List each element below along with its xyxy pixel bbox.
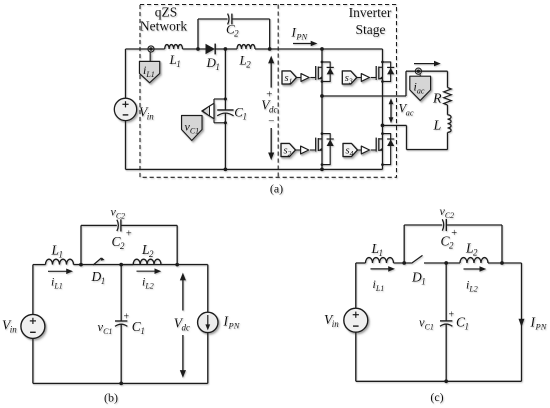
node C1-top (b) bbox=[119, 263, 123, 267]
wire C1 branch lower (b) bbox=[120, 324, 122, 383]
current arrow iac bbox=[414, 63, 436, 65]
transistor Q3 drain stub bbox=[379, 66, 383, 68]
transistor Q2 body diode bbox=[327, 138, 334, 140]
gate signal tag s2 bbox=[281, 143, 296, 156]
capacitor C2 (c) bbox=[442, 219, 443, 230]
node C2-right (b) bbox=[175, 263, 179, 267]
resistor R bbox=[444, 88, 452, 106]
wire C2 branch left (c) bbox=[403, 225, 405, 263]
wire tag-to-buffer s1 bbox=[297, 77, 302, 79]
inductor L1 (b) bbox=[46, 259, 74, 264]
svg-text:(c): (c) bbox=[430, 390, 443, 404]
transistor Q2 channel bbox=[317, 138, 319, 151]
node C1 bottom bbox=[224, 168, 228, 172]
transistor Q4 gate bar bbox=[375, 138, 377, 152]
capacitor C1 (c) bbox=[440, 320, 452, 322]
current probe iL1 bbox=[139, 52, 159, 83]
inverter stage dashed divider bbox=[277, 5, 279, 178]
wire buffer-to-gate s1 bbox=[310, 77, 315, 79]
wire top rail (b) bbox=[33, 264, 46, 266]
inductor L2 (c) bbox=[460, 258, 488, 263]
node iac probe point bbox=[415, 68, 421, 74]
diode D1 bbox=[206, 44, 216, 55]
node C1-top (c) bbox=[444, 261, 448, 265]
capacitor C1 bbox=[217, 109, 233, 111]
wire C1 branch upper (b) bbox=[120, 265, 122, 321]
node B (D1-L2 / C1 top) bbox=[224, 47, 228, 51]
gate driver buffer s2 bbox=[301, 146, 309, 154]
svg-text:−: − bbox=[268, 115, 274, 127]
svg-text:(b): (b) bbox=[104, 391, 118, 405]
node left leg midpoint bbox=[320, 94, 324, 98]
transistor Q2 source arrow bbox=[319, 148, 322, 151]
wire R-L bbox=[447, 105, 449, 115]
inductor L1 (c) bbox=[366, 258, 394, 263]
wire C2 branch left bbox=[197, 19, 199, 49]
capacitor C2 bbox=[228, 14, 229, 25]
wire C1 branch lower bbox=[224, 114, 226, 170]
node A (L1-D1) bbox=[196, 47, 200, 51]
wire load bottom bbox=[447, 132, 449, 149]
svg-text:+: + bbox=[449, 309, 455, 320]
wire right branch top (b) bbox=[207, 265, 209, 313]
wire top rail (c) bbox=[356, 262, 366, 264]
transistor Q3 source arrow bbox=[379, 76, 382, 79]
wire C2 top right (b) bbox=[121, 224, 177, 226]
svg-text:Stage: Stage bbox=[356, 22, 386, 37]
wire buffer-to-gate s4 bbox=[371, 149, 377, 151]
node C1 bottom (b) bbox=[119, 382, 123, 386]
transistor Q3 body-diode loop bbox=[383, 62, 391, 82]
wire right leg bbox=[382, 49, 384, 169]
node C2-left (b) bbox=[79, 263, 83, 267]
wire C2 top right (c) bbox=[446, 224, 502, 226]
switch D1 (b) blade bbox=[93, 258, 101, 265]
svg-text:qZS: qZS bbox=[155, 5, 178, 20]
node C1 bottom (c) bbox=[444, 379, 448, 383]
transistor Q2 drain stub bbox=[318, 138, 322, 140]
node qZS input (probe point) bbox=[148, 46, 154, 52]
transistor Q4 source stub bbox=[379, 149, 383, 151]
transistor Q1 body diode bbox=[327, 66, 334, 68]
transistor Q1 source stub bbox=[318, 78, 322, 80]
transistor Q3 channel bbox=[378, 67, 380, 80]
wire C2 branch right bbox=[269, 19, 271, 49]
voltage source Vin (b) bbox=[21, 314, 45, 338]
node C (L2 right / C2 right) bbox=[268, 47, 272, 51]
wire upper output bbox=[322, 95, 406, 97]
wire tag-to-buffer s2 bbox=[296, 149, 301, 151]
inductor L1 bbox=[165, 45, 183, 49]
qZS network dashed box bbox=[140, 5, 397, 178]
gate signal tag s4 bbox=[343, 143, 358, 156]
wire C1 branch upper bbox=[224, 49, 226, 110]
gate driver buffer s3 bbox=[361, 74, 369, 82]
voltage arrow Vdc (double headed) bbox=[270, 62, 272, 88]
current source IPN (b) bbox=[198, 312, 218, 332]
wire C2 branch top right bbox=[232, 18, 270, 20]
inductor L2 bbox=[237, 45, 255, 49]
current arrow IPN (c) bbox=[519, 319, 525, 328]
node left leg top bbox=[320, 47, 324, 51]
svg-text:R: R bbox=[432, 92, 442, 107]
wire bottom rail (c) bbox=[356, 380, 522, 382]
wire buffer-to-gate s3 bbox=[371, 77, 377, 79]
transistor Q1 body-diode loop bbox=[322, 62, 330, 82]
wire C2 top left (b) bbox=[81, 224, 117, 226]
svg-text:L: L bbox=[433, 119, 442, 134]
gate driver buffer s4 bbox=[361, 146, 369, 154]
transistor Q2 source stub bbox=[318, 149, 322, 151]
junction dots Q3 bbox=[381, 61, 384, 64]
switch D1 (c) blade bbox=[411, 255, 422, 263]
current probe iac bbox=[410, 74, 431, 100]
junction dots Q1 bbox=[321, 61, 324, 64]
wire bottom rail (b) bbox=[33, 382, 208, 384]
current arrow iL1 (c) bbox=[371, 268, 390, 270]
transistor Q4 body diode bbox=[387, 138, 394, 140]
current arrow iL2 (b) bbox=[137, 270, 157, 272]
transistor Q1 channel bbox=[317, 67, 319, 80]
wire left branch (c) bbox=[355, 263, 357, 308]
node right leg midpoint bbox=[381, 124, 385, 128]
voltage arrow Vdc (b) bbox=[182, 277, 184, 311]
svg-text:(a): (a) bbox=[270, 182, 283, 196]
transistor Q1 gate bar bbox=[315, 66, 317, 80]
capacitor C2 (b) bbox=[117, 220, 118, 231]
capacitor C1 (b) bbox=[115, 320, 127, 322]
wire buffer-to-gate s2 bbox=[310, 149, 316, 151]
wire C2 top left (c) bbox=[404, 224, 442, 226]
wire C2 branch left (b) bbox=[80, 225, 82, 264]
wire C2 branch top left bbox=[198, 18, 228, 20]
wire Vin bottom bbox=[125, 121, 127, 170]
voltage arrow Vac (double headed) bbox=[390, 101, 392, 121]
transistor Q4 source arrow bbox=[379, 148, 382, 151]
gate signal tag s3 bbox=[342, 71, 357, 84]
wire C1 branch upper (c) bbox=[445, 263, 447, 321]
wire right branch (c) bbox=[521, 263, 523, 381]
transistor Q3 gate bar bbox=[375, 66, 377, 80]
wire left leg bbox=[321, 49, 323, 169]
current arrow iL2 (c) bbox=[464, 268, 482, 270]
current arrow IPN bbox=[293, 43, 313, 45]
wire left branch (b) bbox=[32, 265, 34, 315]
svg-text:+: + bbox=[126, 229, 132, 240]
transistor Q2 body-diode loop bbox=[322, 134, 330, 165]
junction dots Q4 bbox=[381, 132, 384, 135]
node left leg bottom bbox=[320, 168, 324, 172]
wire C2 branch right (b) bbox=[176, 225, 178, 264]
transistor Q1 drain stub bbox=[318, 66, 322, 68]
wire bottom rail bbox=[126, 168, 383, 170]
gate driver buffer s1 bbox=[301, 74, 309, 82]
wire top rail bbox=[126, 48, 165, 50]
voltage probe vC1 shield bbox=[182, 116, 203, 141]
inductor L2 (b) bbox=[121, 264, 133, 266]
transistor Q1 source arrow bbox=[319, 76, 322, 79]
transistor Q3 source stub bbox=[379, 78, 383, 80]
svg-text:+: + bbox=[124, 312, 130, 323]
voltage probe vC1 bracket bbox=[214, 98, 225, 100]
transistor Q2 gate bar bbox=[315, 138, 317, 152]
voltage probe vC1 pointer bbox=[182, 103, 214, 140]
wire tag-to-buffer s3 bbox=[357, 77, 362, 79]
wire C1 branch lower (c) bbox=[445, 324, 447, 381]
node C2-right (c) bbox=[500, 261, 504, 265]
wire lower output bbox=[383, 124, 407, 126]
transistor Q4 body-diode loop bbox=[383, 134, 391, 165]
voltage source Vin (c) bbox=[344, 308, 368, 332]
gate signal tag s1 bbox=[282, 71, 297, 84]
inductor L (load) bbox=[448, 115, 452, 133]
junction dots Q2 bbox=[321, 132, 324, 135]
wire tag-to-buffer s4 bbox=[358, 149, 362, 151]
svg-text:Inverter: Inverter bbox=[349, 5, 392, 20]
svg-text:Network: Network bbox=[140, 19, 187, 34]
current arrow iL1 (b) bbox=[48, 270, 68, 272]
voltage source Vin bbox=[114, 98, 136, 120]
wire Vin top bbox=[125, 49, 127, 98]
transistor Q3 body diode bbox=[387, 66, 394, 68]
wire right branch bottom (b) bbox=[207, 333, 209, 384]
transistor Q4 channel bbox=[378, 138, 380, 151]
wire C2 branch right (c) bbox=[501, 225, 503, 263]
wire load top-right bbox=[447, 71, 449, 87]
svg-text:+: + bbox=[451, 228, 457, 239]
transistor Q4 drain stub bbox=[379, 138, 383, 140]
node C2-left (c) bbox=[402, 261, 406, 265]
